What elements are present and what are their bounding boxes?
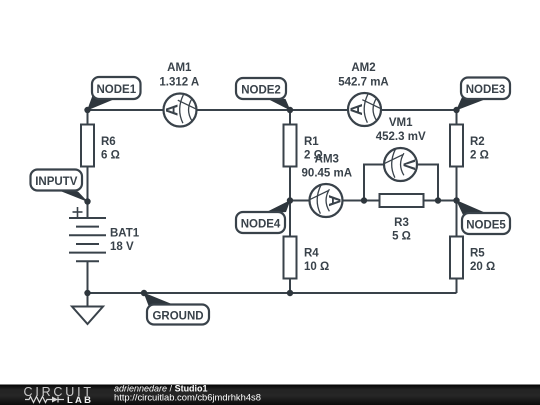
junction VM1 loop right bbox=[435, 197, 441, 203]
ammeter AM1 bbox=[159, 62, 199, 127]
resistor R3 bbox=[380, 194, 424, 243]
svg-text:10 Ω: 10 Ω bbox=[304, 261, 329, 273]
junction at GROUND label bbox=[141, 290, 147, 296]
junction battery to ground bbox=[84, 290, 90, 296]
wire left rail: NODE1 down to R6 bbox=[87, 110, 89, 125]
svg-text:GROUND: GROUND bbox=[152, 311, 203, 323]
svg-text:NODE5: NODE5 bbox=[466, 220, 506, 232]
svg-text:R5: R5 bbox=[470, 248, 485, 260]
svg-text:A: A bbox=[325, 195, 343, 207]
CircuitLab logo resistor-diode glyph bbox=[25, 397, 64, 403]
wire top row: NODE1 junction to AM1 bbox=[88, 109, 164, 111]
wire bottom row bbox=[88, 292, 457, 294]
junction at NODE2 bbox=[287, 107, 293, 113]
voltmeter VM1 bbox=[376, 117, 426, 181]
resistor R1 bbox=[284, 125, 323, 167]
wire right rail: NODE3 down to R2 bbox=[456, 110, 458, 125]
svg-text:90.45 mA: 90.45 mA bbox=[302, 168, 353, 180]
wire left rail: battery bottom to ground node bbox=[87, 261, 89, 293]
svg-text:AM1: AM1 bbox=[167, 62, 192, 74]
ground bbox=[72, 307, 103, 325]
node NODE5 bbox=[456, 200, 510, 234]
ammeter AM2 bbox=[338, 62, 389, 126]
svg-text:NODE4: NODE4 bbox=[241, 219, 281, 231]
wire top row: AM1 to AM2 bbox=[197, 109, 348, 111]
wire right rail: R5 to bottom row bbox=[456, 278, 458, 293]
svg-text:542.7 mA: 542.7 mA bbox=[338, 76, 389, 88]
svg-text:NODE1: NODE1 bbox=[96, 84, 136, 96]
svg-text:452.3 mV: 452.3 mV bbox=[376, 131, 426, 143]
battery BAT1 bbox=[69, 207, 140, 261]
wire left rail: R6 to battery top bbox=[87, 166, 89, 218]
svg-text:20 Ω: 20 Ω bbox=[470, 261, 495, 273]
svg-text:AM2: AM2 bbox=[351, 62, 375, 74]
node GROUND bbox=[144, 293, 210, 325]
footer bar bbox=[0, 385, 540, 405]
svg-text:2 Ω: 2 Ω bbox=[470, 149, 489, 161]
node INPUTV bbox=[31, 170, 89, 203]
junction at NODE1 bbox=[84, 107, 90, 113]
wire middle rail: R1 to R4 bbox=[289, 166, 291, 237]
wire middle row: R3 to NODE5 junction bbox=[424, 200, 457, 202]
wire ground stub bbox=[87, 293, 89, 307]
node NODE4 bbox=[236, 200, 291, 233]
svg-text:5 Ω: 5 Ω bbox=[392, 231, 411, 243]
junction at NODE3 bbox=[453, 107, 459, 113]
ammeter AM3 bbox=[302, 153, 353, 217]
wire right rail: R2 to R5 bbox=[456, 166, 458, 237]
wire VM1 loop left bbox=[364, 165, 384, 201]
svg-text:INPUTV: INPUTV bbox=[35, 176, 78, 188]
svg-text:V: V bbox=[400, 159, 418, 170]
resistor R6 bbox=[81, 125, 120, 167]
footer attribution text bbox=[114, 384, 261, 403]
resistor R2 bbox=[450, 125, 489, 167]
resistor R5 bbox=[450, 237, 495, 279]
svg-text:1.312 A: 1.312 A bbox=[159, 76, 199, 88]
svg-text:http://circuitlab.com/cb6jmdrh: http://circuitlab.com/cb6jmdrhkh4s8 bbox=[114, 391, 261, 402]
svg-text:R2: R2 bbox=[470, 136, 485, 148]
svg-text:R6: R6 bbox=[101, 136, 116, 148]
wire middle row: NODE4 junction to AM3 bbox=[290, 200, 309, 202]
svg-text:A: A bbox=[348, 103, 366, 115]
node NODE3 bbox=[456, 78, 510, 111]
svg-text:6 Ω: 6 Ω bbox=[101, 149, 120, 161]
svg-text:AM3: AM3 bbox=[315, 153, 339, 165]
wire VM1 loop right bbox=[418, 165, 439, 201]
svg-text:LAB: LAB bbox=[67, 395, 93, 405]
wire middle rail: R4 to bottom row bbox=[289, 278, 291, 293]
svg-text:A: A bbox=[163, 104, 181, 116]
junction VM1 loop left bbox=[361, 197, 367, 203]
node NODE1 bbox=[87, 77, 141, 111]
junction R4 bottom bbox=[287, 290, 293, 296]
node NODE2 bbox=[236, 78, 291, 111]
wire middle rail: NODE2 down to R1 bbox=[289, 110, 291, 125]
wire top row: AM2 to NODE3 junction bbox=[382, 109, 457, 111]
wire middle row: AM3 to R3 bbox=[343, 200, 380, 202]
svg-text:NODE3: NODE3 bbox=[466, 84, 506, 96]
svg-text:BAT1: BAT1 bbox=[110, 228, 140, 240]
svg-text:NODE2: NODE2 bbox=[241, 85, 281, 97]
junction at NODE4 bbox=[287, 197, 293, 203]
svg-text:VM1: VM1 bbox=[389, 117, 413, 129]
junction at NODE5 bbox=[453, 197, 459, 203]
svg-text:18 V: 18 V bbox=[110, 241, 134, 253]
junction at INPUTV bbox=[84, 198, 90, 204]
resistor R4 bbox=[284, 237, 330, 279]
svg-text:R1: R1 bbox=[304, 136, 319, 148]
CircuitLab logo text bbox=[24, 385, 94, 405]
svg-text:R4: R4 bbox=[304, 248, 319, 260]
svg-text:R3: R3 bbox=[394, 217, 409, 229]
